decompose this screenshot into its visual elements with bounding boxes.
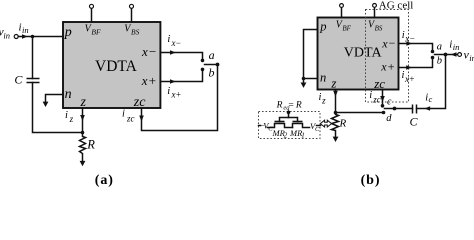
- svg-text:+: +: [149, 73, 156, 88]
- svg-text:+: +: [409, 74, 414, 84]
- wire node to contact d (b): [336, 112, 384, 114]
- contact b (a): [201, 68, 205, 72]
- wire pin z down to node (b): [335, 90, 337, 113]
- svg-text:b: b: [437, 56, 442, 67]
- capacitor C (a): [14, 73, 39, 87]
- svg-text:C: C: [410, 115, 419, 129]
- current label i_in (b): [449, 39, 459, 57]
- current arrow i_z (b): [319, 91, 338, 106]
- current label i_in (a): [19, 22, 29, 39]
- terminal V_BS (a): [130, 4, 134, 21]
- VDTA block U1 (a): [63, 22, 160, 110]
- svg-text:x: x: [171, 90, 176, 100]
- node junction at input (a): [31, 35, 35, 39]
- svg-text:in: in: [469, 53, 474, 63]
- svg-text:(a): (a): [95, 173, 114, 188]
- feedback wire pole to zc (a): [142, 65, 218, 131]
- svg-text:2: 2: [284, 132, 288, 140]
- svg-text:−: −: [410, 34, 415, 44]
- svg-text:n: n: [65, 87, 72, 102]
- wire pin x- to contact a (a): [161, 53, 203, 59]
- svg-text:x: x: [141, 44, 148, 59]
- svg-text:=: =: [288, 100, 293, 110]
- svg-text:x: x: [381, 37, 388, 51]
- svg-text:R: R: [276, 101, 283, 111]
- wire capacitor to switch pole c/d (b): [385, 107, 413, 111]
- ground below R (a): [80, 161, 86, 166]
- node junction z/C/R (a): [81, 131, 85, 135]
- wire v_in to pin p: [19, 36, 63, 38]
- current label i_x- (b): [402, 30, 415, 46]
- current label i_x+ (b): [402, 65, 415, 84]
- MOS cell gate bus: [280, 118, 298, 122]
- svg-text:x: x: [380, 59, 387, 73]
- svg-text:p: p: [64, 25, 72, 40]
- current label i_c (b): [424, 93, 432, 111]
- svg-text:a: a: [209, 48, 215, 62]
- svg-text:i: i: [369, 90, 372, 101]
- svg-text:p: p: [319, 19, 326, 33]
- svg-text:zc: zc: [126, 114, 135, 124]
- transistor MR1: [289, 122, 310, 140]
- svg-text:in: in: [22, 25, 29, 35]
- wire p/n to ground (b): [302, 30, 318, 84]
- svg-text:−: −: [389, 36, 396, 50]
- svg-text:i: i: [167, 34, 170, 45]
- current label i_x- (a): [167, 34, 181, 55]
- svg-text:i: i: [319, 92, 322, 103]
- svg-text:BF: BF: [342, 25, 351, 33]
- current arrow i_zc (a): [122, 109, 144, 124]
- label V_C: [310, 121, 321, 133]
- svg-text:−: −: [176, 38, 181, 48]
- svg-text:+: +: [388, 59, 395, 73]
- label -V_C: [259, 120, 274, 132]
- svg-text:x: x: [404, 74, 409, 84]
- svg-text:z: z: [330, 76, 336, 91]
- switch pole (a): [205, 63, 220, 67]
- AG cell dashed box: [366, 10, 409, 103]
- svg-text:i: i: [167, 86, 170, 97]
- svg-text:c: c: [387, 97, 392, 108]
- resistor R (b): [332, 113, 347, 137]
- current label i_x+ (a): [167, 79, 181, 99]
- terminal V_BF (a): [90, 4, 94, 21]
- wire pin zc down to contact c (b): [382, 90, 384, 104]
- svg-text:R: R: [86, 138, 95, 152]
- wire pin x+ to contact b (b): [399, 60, 433, 68]
- svg-text:VDTA: VDTA: [95, 58, 138, 75]
- svg-text:x: x: [404, 34, 409, 44]
- svg-text:x: x: [141, 73, 148, 88]
- svg-text:x: x: [171, 38, 176, 48]
- svg-text:VDTA: VDTA: [344, 46, 383, 61]
- capacitor C (b): [410, 105, 419, 129]
- current arrow i_zc (b): [369, 90, 385, 105]
- node junction z/R/d (b): [334, 111, 338, 115]
- svg-text:(b): (b): [361, 173, 381, 188]
- svg-text:z: z: [69, 114, 74, 124]
- terminal V_BS (b): [373, 4, 377, 18]
- input terminal v_in (b): [446, 48, 474, 64]
- svg-text:BS: BS: [375, 25, 383, 33]
- contact a (a): [201, 59, 205, 63]
- MOS resistor cell dashed box: [259, 112, 321, 139]
- svg-text:in: in: [453, 42, 460, 52]
- svg-text:n: n: [320, 70, 326, 84]
- svg-text:zc: zc: [373, 76, 385, 91]
- label R_eq = R: [276, 100, 302, 111]
- svg-text:C: C: [14, 73, 23, 87]
- resistor R (a): [80, 133, 96, 161]
- svg-text:−: −: [149, 44, 156, 59]
- contact d (b): [382, 111, 386, 115]
- wire junction to capacitor: [32, 37, 34, 79]
- ground at pin n (a): [43, 95, 63, 108]
- wire capacitor to z node: [33, 83, 83, 133]
- MOS cell top node: [287, 111, 291, 118]
- svg-text:i: i: [122, 109, 125, 120]
- svg-text:C: C: [268, 125, 273, 132]
- svg-text:d: d: [386, 113, 392, 124]
- contact a (b): [431, 50, 435, 54]
- switch pole (b): [435, 53, 448, 57]
- svg-text:R: R: [339, 117, 347, 129]
- contact c (b): [381, 104, 385, 108]
- svg-text:i: i: [65, 110, 68, 121]
- contact b (b): [431, 56, 435, 60]
- terminal V_BF (b): [340, 4, 344, 18]
- transistor MR2: [268, 122, 293, 140]
- svg-text:in: in: [3, 30, 10, 40]
- VDTA block U2 (b): [318, 18, 399, 92]
- input terminal v_in (a): [0, 26, 18, 40]
- svg-text:BF: BF: [91, 27, 101, 36]
- svg-text:z: z: [321, 96, 326, 106]
- svg-text:b: b: [209, 65, 215, 79]
- svg-text:a: a: [437, 42, 442, 53]
- ground below R (b): [333, 137, 339, 142]
- svg-text:c: c: [429, 94, 433, 104]
- ground below n junction (b): [301, 83, 307, 88]
- wire v_in node down to capacitor (b): [417, 55, 446, 109]
- svg-text:BS: BS: [131, 27, 140, 36]
- svg-text:1: 1: [301, 132, 305, 140]
- current arrow i_z (a): [65, 110, 85, 124]
- wire pin z down (a): [82, 109, 84, 133]
- wire pin x+ to contact b (a): [161, 72, 203, 82]
- svg-text:zc: zc: [133, 95, 146, 110]
- svg-text:C: C: [315, 126, 320, 133]
- equivalence symbol: [320, 120, 331, 127]
- svg-text:R: R: [295, 101, 302, 111]
- wire pin x- to contact a (b): [399, 44, 433, 50]
- svg-text:zc: zc: [372, 95, 381, 105]
- svg-text:+: +: [176, 90, 181, 100]
